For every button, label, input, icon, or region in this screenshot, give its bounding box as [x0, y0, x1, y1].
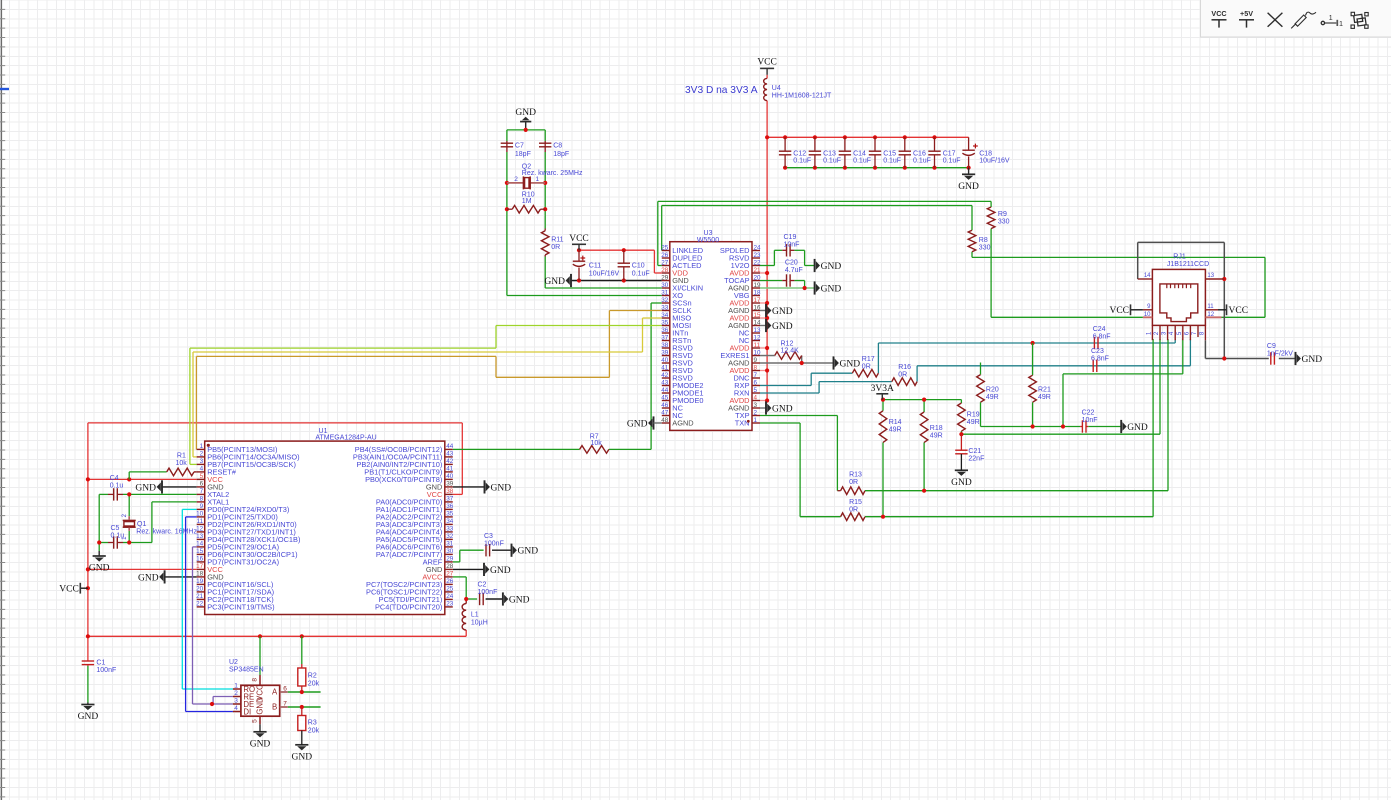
svg-text:21: 21 — [196, 593, 204, 600]
resistor R2 — [298, 664, 320, 692]
svg-text:W5500: W5500 — [697, 237, 719, 244]
svg-text:8: 8 — [754, 364, 758, 371]
wire crystal Q2 nets XI/XO — [505, 122, 662, 296]
capacitor C16 — [899, 137, 931, 167]
svg-text:R15: R15 — [849, 499, 862, 506]
wire AGND pin19 to GND — [760, 286, 815, 290]
svg-text:1M: 1M — [522, 198, 532, 205]
resistor R1 — [167, 453, 194, 476]
svg-text:29: 29 — [661, 274, 669, 281]
resistor R3 — [298, 707, 320, 745]
svg-text:0R: 0R — [898, 372, 907, 379]
svg-text:C15: C15 — [883, 150, 896, 157]
sheet frame left edge with ticks — [0, 0, 5, 800]
capacitor C24 — [1093, 326, 1111, 349]
capacitor C15 — [869, 137, 901, 167]
wire R21 top to RXP — [1032, 343, 1034, 375]
svg-text:C17: C17 — [943, 150, 956, 157]
wire GND pin6 — [162, 486, 197, 488]
svg-text:43: 43 — [661, 379, 669, 386]
wire GND pin29 with C11/C10 — [571, 278, 662, 282]
svg-text:11: 11 — [1207, 304, 1214, 310]
svg-text:R8: R8 — [979, 237, 988, 244]
svg-text:45: 45 — [661, 394, 669, 401]
wire AGND pin16 — [760, 310, 766, 312]
svg-text:GND: GND — [1127, 423, 1148, 433]
wire MOSI net — [190, 326, 662, 465]
svg-text:C5: C5 — [111, 525, 120, 532]
ground (U1 pin18) — [138, 570, 165, 583]
svg-text:GND: GND — [89, 564, 110, 574]
svg-text:20k: 20k — [308, 680, 320, 687]
svg-text:1: 1 — [234, 683, 238, 690]
svg-text:18: 18 — [196, 571, 204, 578]
svg-text:R2: R2 — [308, 673, 317, 680]
wire LINKLED to R8 to RJ45 pin12 — [662, 206, 1265, 318]
svg-text:GND: GND — [821, 284, 842, 294]
svg-text:5: 5 — [200, 473, 204, 480]
toolbar power/net tools — [1201, 0, 1391, 37]
svg-text:GND: GND — [772, 307, 793, 317]
ground (C22) — [1121, 420, 1148, 433]
resistor R15 — [841, 499, 865, 521]
ground (AGND16) — [766, 304, 793, 317]
ground (C3) — [512, 544, 539, 557]
resistor R20 — [977, 375, 999, 403]
wire GND pin39 — [453, 486, 485, 488]
svg-text:0R: 0R — [862, 363, 871, 370]
power flag 3V3A — [871, 384, 894, 400]
svg-text:33: 33 — [446, 526, 454, 533]
ground (AGND48) — [627, 416, 662, 429]
resistor R10 — [507, 192, 545, 213]
wire R18 bottom to TXP line — [923, 442, 925, 490]
svg-text:34: 34 — [661, 312, 669, 319]
svg-text:RJ1: RJ1 — [1173, 254, 1186, 261]
capacitor C21 — [955, 434, 984, 470]
svg-text:6: 6 — [283, 686, 287, 693]
svg-text:42: 42 — [446, 458, 454, 465]
capacitor C8 — [539, 141, 569, 158]
capacitor C7 — [501, 141, 531, 158]
svg-text:C4: C4 — [110, 475, 119, 482]
wire AVCC to L1 and C2 — [453, 577, 503, 604]
svg-text:41: 41 — [446, 466, 454, 473]
svg-text:44: 44 — [661, 387, 669, 394]
svg-text:10k: 10k — [176, 460, 188, 467]
svg-text:18pF: 18pF — [553, 151, 569, 158]
svg-text:GND: GND — [958, 182, 979, 192]
wire RS485 A line — [288, 690, 321, 694]
wire U2 VCC pin — [259, 636, 261, 675]
svg-text:24: 24 — [446, 593, 454, 600]
svg-text:GND: GND — [491, 483, 512, 493]
svg-text:0.1uF: 0.1uF — [793, 157, 811, 164]
svg-text:29: 29 — [446, 556, 454, 563]
ground (AGND14) — [766, 319, 793, 332]
svg-text:GND: GND — [518, 547, 539, 557]
svg-text:48: 48 — [661, 417, 669, 424]
svg-text:0.1uF: 0.1uF — [883, 157, 901, 164]
wire R2 top to VCC — [301, 636, 303, 664]
svg-text:2: 2 — [200, 451, 204, 458]
svg-text:4: 4 — [200, 466, 204, 473]
svg-text:35: 35 — [446, 511, 454, 518]
wire RCT node R20/R21/C22 and RJ45 pin5 — [981, 339, 1183, 429]
svg-text:20: 20 — [196, 586, 204, 593]
wire TXN via R15 to RJ45 pin1 — [760, 339, 1153, 519]
wire MISO net — [193, 318, 662, 457]
svg-text:Rez. kwarc. 16MHz: Rez. kwarc. 16MHz — [136, 529, 197, 536]
svg-text:15: 15 — [754, 312, 762, 319]
svg-text:35: 35 — [661, 319, 669, 326]
ground (U1 pin39) — [485, 480, 512, 493]
wire R20 top to RXN — [980, 363, 982, 375]
power flag VCC (RJ45 left) — [1109, 304, 1130, 316]
svg-text:R18: R18 — [930, 425, 943, 432]
ground (C1) — [78, 705, 99, 723]
svg-text:GND: GND — [78, 712, 99, 722]
svg-text:38: 38 — [446, 488, 454, 495]
svg-text:18pF: 18pF — [515, 151, 531, 158]
svg-text:GND: GND — [544, 277, 565, 287]
svg-text:0R: 0R — [551, 244, 560, 251]
wire 3V3A node — [881, 398, 962, 413]
svg-text:10nF: 10nF — [784, 242, 800, 249]
svg-text:4.7uF: 4.7uF — [785, 267, 803, 274]
svg-text:6.8nF: 6.8nF — [1091, 356, 1109, 363]
resistor R9 — [987, 207, 1009, 229]
ground (1V2O C19) — [815, 259, 842, 272]
svg-text:C11: C11 — [589, 263, 601, 270]
wire VCC flag tap — [80, 587, 88, 589]
capacitor C11 — [573, 250, 620, 280]
svg-text:39: 39 — [661, 349, 669, 356]
svg-text:100nF: 100nF — [484, 540, 504, 547]
svg-text:2: 2 — [514, 176, 518, 183]
svg-text:1: 1 — [754, 417, 758, 424]
svg-text:VCC: VCC — [1211, 9, 1226, 18]
svg-text:49R: 49R — [930, 432, 943, 439]
svg-text:330: 330 — [998, 219, 1010, 226]
svg-text:9: 9 — [754, 357, 758, 364]
capacitor C5 — [108, 525, 124, 549]
svg-text:40: 40 — [446, 473, 454, 480]
svg-text:3: 3 — [200, 458, 204, 465]
capacitor C12 — [779, 137, 811, 167]
svg-text:26: 26 — [661, 252, 669, 259]
svg-text:0.1uF: 0.1uF — [632, 270, 650, 277]
svg-text:330: 330 — [979, 245, 991, 252]
ground (C9) — [1296, 352, 1323, 365]
svg-text:1: 1 — [1339, 19, 1343, 28]
svg-text:2: 2 — [234, 690, 238, 697]
resistor R19 — [958, 403, 980, 431]
IC U1 ATMEGA1284P-AU — [196, 428, 454, 615]
svg-text:HH-1M1608-121JT: HH-1M1608-121JT — [772, 93, 832, 100]
svg-text:23: 23 — [446, 601, 454, 608]
svg-text:A: A — [272, 688, 278, 697]
svg-text:PC3(PCINT19/TMS): PC3(PCINT19/TMS) — [207, 602, 274, 611]
svg-text:C18: C18 — [979, 150, 992, 157]
wire C1 to GND — [87, 666, 89, 705]
capacitor C9 — [1267, 343, 1293, 365]
svg-text:VCC: VCC — [1229, 306, 1249, 316]
capacitor C1 — [82, 660, 117, 675]
capacitor C4 — [108, 475, 123, 501]
wire RXN via R16/C23 to RJ45 pin6 — [760, 339, 1190, 393]
svg-text:6.8nF: 6.8nF — [1093, 334, 1111, 341]
wire RESET pullup R1 — [129, 472, 197, 480]
svg-text:C2: C2 — [478, 582, 487, 589]
ground (Q1 bottom) — [89, 556, 110, 574]
svg-text:Q1: Q1 — [137, 521, 146, 528]
svg-text:10uF/16V: 10uF/16V — [589, 270, 620, 277]
svg-text:49R: 49R — [1038, 394, 1051, 401]
wire SCSn net with R7 — [453, 303, 662, 449]
svg-text:R16: R16 — [898, 364, 911, 371]
wire cap bank ground bus — [783, 166, 971, 175]
wire AGND pin14 — [760, 325, 766, 327]
power flag VCC (top) — [757, 58, 777, 75]
svg-text:10k: 10k — [591, 440, 603, 447]
svg-text:B: B — [272, 703, 277, 712]
svg-text:R3: R3 — [308, 720, 317, 727]
wire TXD0 to DI (blue) — [186, 517, 233, 712]
svg-text:R1: R1 — [177, 453, 186, 460]
svg-text:36: 36 — [446, 503, 454, 510]
capacitor C10 — [618, 250, 650, 280]
IC U2 SP3485EN — [229, 659, 288, 732]
resistor R21 — [1029, 375, 1051, 402]
svg-text:30: 30 — [661, 282, 669, 289]
note 3V3 D na 3V3 A — [685, 85, 758, 96]
svg-text:41: 41 — [661, 364, 669, 371]
svg-text:37: 37 — [446, 496, 454, 503]
svg-text:C8: C8 — [553, 143, 562, 150]
svg-text:VCC: VCC — [1109, 306, 1129, 316]
wire PD5 to RE/DE (purple) — [193, 547, 233, 706]
wire RJ45 shield to C9 — [1138, 242, 1296, 360]
svg-text:R9: R9 — [998, 211, 1007, 218]
svg-text:C7: C7 — [515, 143, 524, 150]
svg-text:14: 14 — [1144, 273, 1151, 279]
svg-text:42: 42 — [661, 372, 669, 379]
svg-text:18: 18 — [754, 289, 762, 296]
svg-text:14: 14 — [196, 541, 204, 548]
wire R19/C21 node to RJ45 pin2 (TCT) — [959, 339, 1160, 436]
svg-text:GND: GND — [509, 595, 530, 605]
svg-text:9: 9 — [200, 503, 204, 510]
svg-text:12: 12 — [196, 526, 204, 533]
svg-text:3: 3 — [234, 698, 238, 705]
svg-text:2: 2 — [754, 409, 758, 416]
svg-text:39: 39 — [446, 481, 454, 488]
resistor R16 — [892, 364, 917, 385]
svg-text:14: 14 — [754, 319, 762, 326]
wire RXD0 to RO (cyan) — [182, 509, 233, 689]
svg-text:VCC: VCC — [569, 234, 589, 244]
ground (AGND9) — [834, 356, 861, 369]
svg-text:4: 4 — [754, 394, 758, 401]
svg-text:10µH: 10µH — [471, 619, 488, 626]
ground (U1 pin6) — [135, 480, 162, 493]
svg-text:C9: C9 — [1267, 343, 1276, 350]
capacitor C19 — [782, 234, 799, 256]
svg-text:0.1uF: 0.1uF — [913, 157, 931, 164]
capacitor C18 — [962, 137, 1009, 167]
svg-text:VCC: VCC — [255, 684, 264, 701]
svg-text:C21: C21 — [968, 448, 981, 455]
svg-text:1nF/2kV: 1nF/2kV — [1267, 351, 1293, 358]
svg-text:16: 16 — [196, 556, 204, 563]
svg-text:SP3485EN: SP3485EN — [229, 666, 264, 673]
svg-text:1: 1 — [1329, 15, 1333, 22]
svg-text:C20: C20 — [785, 260, 798, 267]
svg-text:34: 34 — [446, 518, 454, 525]
ground (TOCAP C20) — [815, 281, 842, 294]
svg-text:1: 1 — [536, 176, 540, 183]
wire 1V2O to C19/GND — [760, 250, 815, 265]
ground (R3) — [292, 745, 313, 763]
svg-text:17: 17 — [754, 297, 762, 304]
svg-text:25: 25 — [446, 586, 454, 593]
capacitor C23 — [1091, 348, 1109, 372]
svg-text:37: 37 — [661, 334, 669, 341]
svg-text:GND: GND — [490, 566, 511, 576]
connector RJ1 J1B1211CCD — [1138, 254, 1225, 341]
svg-text:12: 12 — [754, 334, 762, 341]
power flag VCC (left) — [59, 583, 80, 595]
svg-text:C13: C13 — [823, 150, 836, 157]
svg-text:AGND: AGND — [672, 418, 693, 427]
svg-text:Rez. kwarc. 25MHz: Rez. kwarc. 25MHz — [522, 170, 583, 177]
capacitor C3 — [484, 533, 504, 556]
svg-text:GND: GND — [772, 404, 793, 414]
svg-text:19: 19 — [196, 578, 204, 585]
svg-text:16: 16 — [754, 304, 762, 311]
svg-text:32: 32 — [446, 533, 454, 540]
svg-text:L1: L1 — [471, 612, 479, 619]
svg-text:27: 27 — [661, 259, 669, 266]
power flag VCC (C11) — [569, 234, 589, 250]
svg-text:GND: GND — [292, 752, 313, 762]
svg-text:11: 11 — [197, 518, 204, 525]
svg-text:22: 22 — [754, 259, 762, 266]
ground (AGND3) — [766, 401, 793, 414]
resistor R11 — [541, 229, 563, 257]
wire GND pin18 — [165, 576, 197, 578]
svg-text:PC4(TDO/PCINT20): PC4(TDO/PCINT20) — [375, 602, 442, 611]
svg-text:U2: U2 — [229, 659, 238, 666]
svg-text:U4: U4 — [772, 85, 781, 92]
IC U3 W5500 — [661, 230, 761, 430]
svg-text:22nF: 22nF — [968, 455, 984, 462]
resistor R17 — [852, 356, 878, 377]
wire AGND pin3 — [760, 407, 766, 409]
resistor R13 — [837, 472, 865, 495]
capacitor C17 — [928, 137, 960, 167]
svg-text:R19: R19 — [967, 411, 980, 418]
svg-text:3V3A: 3V3A — [871, 384, 894, 394]
svg-text:23: 23 — [754, 252, 762, 259]
svg-text:C10: C10 — [632, 263, 645, 270]
svg-text:C19: C19 — [784, 234, 797, 241]
svg-text:+5V: +5V — [1240, 9, 1253, 18]
ground (cap bank) — [958, 174, 979, 192]
svg-text:GND: GND — [515, 108, 536, 118]
svg-text:GND: GND — [250, 739, 271, 749]
capacitor C20 — [782, 260, 803, 287]
svg-text:7: 7 — [754, 372, 758, 379]
svg-text:40: 40 — [661, 357, 669, 364]
svg-text:C22: C22 — [1082, 409, 1095, 416]
svg-text:10: 10 — [754, 349, 762, 356]
svg-text:GND: GND — [1302, 355, 1323, 365]
svg-text:C3: C3 — [484, 533, 493, 540]
svg-text:GND: GND — [138, 573, 159, 583]
svg-text:12.4K: 12.4K — [781, 347, 800, 354]
svg-text:C12: C12 — [793, 150, 806, 157]
ground (crystal Q2 top) — [515, 108, 536, 122]
svg-text:49R: 49R — [967, 419, 980, 426]
wire RXP via R17/C24 to RJ45 pin4 — [760, 339, 1175, 386]
svg-text:19: 19 — [754, 282, 762, 289]
crystal Q1 — [122, 513, 197, 540]
svg-text:28: 28 — [661, 267, 669, 274]
svg-text:13: 13 — [1207, 273, 1214, 279]
svg-text:5: 5 — [251, 719, 258, 723]
svg-text:R20: R20 — [986, 387, 999, 394]
wire TXP via R13 to RJ45 pin3 — [760, 339, 1168, 493]
svg-text:J1B1211CCD: J1B1211CCD — [1167, 261, 1209, 268]
svg-text:6: 6 — [200, 481, 204, 488]
svg-text:1: 1 — [200, 443, 204, 450]
svg-text:100nF: 100nF — [96, 667, 116, 674]
svg-text:28: 28 — [446, 563, 454, 570]
wire EXRES1/R12 to AGND — [760, 356, 834, 366]
capacitor C2 — [478, 582, 498, 606]
svg-text:GND: GND — [840, 359, 861, 369]
svg-text:46: 46 — [661, 402, 669, 409]
blue cursor mark on frame — [0, 88, 9, 90]
svg-text:49R: 49R — [986, 394, 999, 401]
capacitor C22 — [1080, 409, 1097, 432]
svg-text:R17: R17 — [862, 356, 875, 363]
svg-text:0.1uF: 0.1uF — [943, 157, 961, 164]
svg-text:0R: 0R — [849, 479, 858, 486]
svg-text:7: 7 — [283, 701, 287, 708]
crystal Q2 — [507, 163, 583, 189]
svg-text:13: 13 — [754, 327, 762, 334]
capacitor C14 — [839, 137, 871, 167]
svg-text:31: 31 — [661, 289, 669, 296]
svg-text:4: 4 — [234, 705, 238, 712]
svg-text:10nF: 10nF — [1082, 417, 1098, 424]
ground (U1 pin28) — [484, 563, 511, 576]
svg-text:32: 32 — [661, 297, 669, 304]
wire RS485 B line — [288, 705, 321, 709]
wire GND pin28 — [453, 568, 484, 570]
resistor R7 — [580, 434, 609, 454]
resistor R14 — [879, 411, 901, 443]
wire AREF to C3 — [453, 550, 512, 562]
svg-text:47: 47 — [661, 409, 669, 416]
svg-text:22: 22 — [196, 601, 204, 608]
svg-text:R13: R13 — [849, 472, 862, 479]
svg-text:VCC: VCC — [59, 585, 79, 595]
wire crystal Q1 nets XTAL1/XTAL2 — [97, 492, 197, 556]
